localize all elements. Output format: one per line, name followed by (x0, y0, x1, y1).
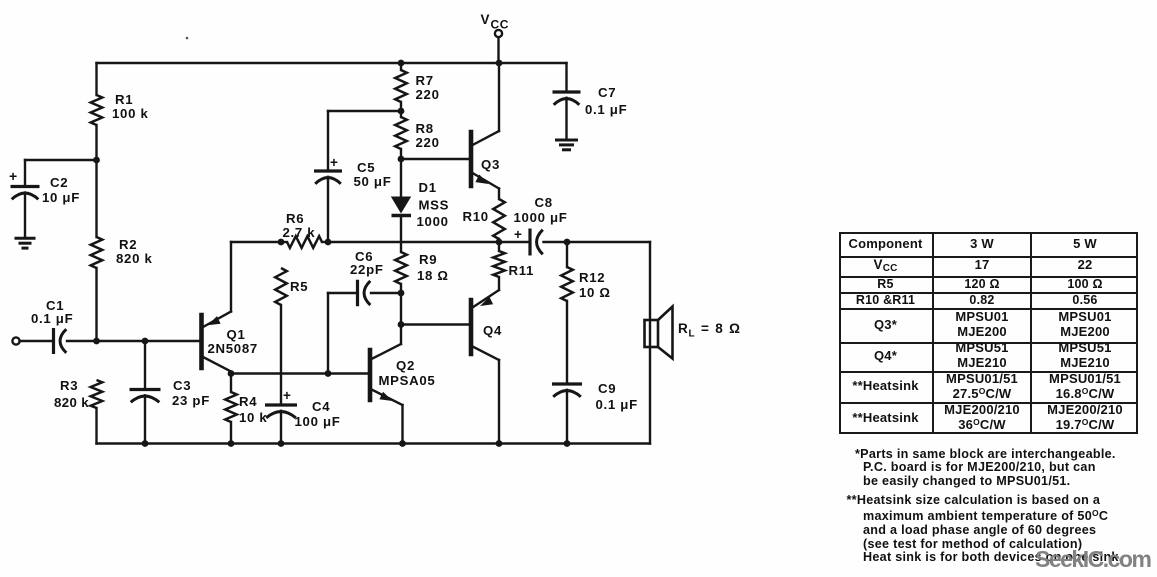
svg-text:D1: D1 (419, 180, 437, 195)
node C2 junction (93, 157, 100, 164)
svg-text:10 k: 10 k (239, 410, 267, 425)
svg-text:R10: R10 (463, 209, 489, 224)
svg-text:MSS: MSS (419, 198, 450, 213)
resistor R2 (91, 237, 103, 268)
resistor R12 (566, 242, 568, 267)
wire C7 to ground (565, 98, 567, 140)
svg-text:18 Ω: 18 Ω (417, 268, 449, 283)
wire Q1 emitter to feedback node (230, 242, 232, 312)
svg-text:R9: R9 (419, 252, 437, 267)
component table (839, 232, 1138, 434)
wire D1 cathode to R9 (400, 216, 402, 253)
svg-text:C3: C3 (173, 378, 191, 393)
wire R5 to C4 (280, 305, 282, 405)
wire R12 to C9 (566, 301, 568, 384)
speck artifact (186, 37, 189, 40)
wire Q1 collector to Q2 base (231, 372, 370, 374)
node C6 stub junction (325, 370, 332, 377)
wire R9 to VAS node (400, 284, 402, 293)
wire Q3 base (401, 158, 471, 160)
Q3 emitter lead (473, 173, 500, 189)
wire R2 to input node (95, 268, 97, 341)
diode D1 (391, 197, 411, 214)
speaker RL (645, 320, 659, 347)
wire feedback to output node (328, 241, 499, 243)
wire C2 to ground (24, 193, 26, 239)
svg-text:22pF: 22pF (350, 262, 384, 277)
wire rail corner to C7 (565, 63, 567, 92)
node C3 bottom junction (142, 440, 149, 447)
wire VAS node column (400, 293, 402, 344)
svg-text:C4: C4 (312, 399, 330, 414)
wire R11 to Q4 emitter (498, 277, 500, 290)
svg-text:2.7 k: 2.7 k (283, 225, 316, 240)
svg-text:2N5087: 2N5087 (208, 341, 258, 356)
svg-text:220: 220 (416, 135, 440, 150)
node Q4 collector junction (496, 440, 503, 447)
capacitor C2 (11, 185, 40, 188)
resistor R3 (91, 380, 103, 408)
resistor R4 (230, 374, 232, 393)
svg-text:Q1: Q1 (227, 327, 246, 342)
svg-text:R2: R2 (119, 237, 137, 252)
wire C5 to feedback node (327, 177, 329, 242)
resistor R10 (493, 199, 505, 239)
svg-text:= 8 Ω: = 8 Ω (701, 321, 741, 336)
resistor R1 (91, 95, 103, 125)
wire C6 right (371, 292, 401, 294)
table row R5 (839, 276, 932, 291)
capacitor C9 (552, 382, 582, 385)
svg-text:R8: R8 (416, 121, 434, 136)
svg-text:1000: 1000 (417, 214, 449, 229)
wire C1 to Q1 base (67, 340, 202, 342)
svg-text:10 μF: 10 μF (42, 190, 80, 205)
svg-text:23 pF: 23 pF (172, 393, 210, 408)
svg-text:220: 220 (416, 87, 440, 102)
Q1 emitter arrow (208, 316, 221, 325)
wire R7 to R8 (400, 102, 402, 117)
node R4 bottom junction (228, 440, 235, 447)
wire Q2 emitter to bottom rail (401, 405, 403, 444)
node C3 top junction (142, 338, 149, 345)
svg-text:R1: R1 (115, 92, 133, 107)
svg-text:R5: R5 (290, 279, 308, 294)
wire feedback corner (231, 241, 281, 243)
Q2 emitter lead (372, 390, 403, 406)
wire rail to R7 (400, 63, 402, 70)
wire R10 to output node (498, 239, 500, 242)
wire Q4 collector to bottom rail (498, 360, 500, 444)
wire Q4 base (401, 323, 471, 325)
svg-text:R6: R6 (286, 211, 304, 226)
Vcc terminal (495, 30, 502, 37)
node Q3 base junction (398, 156, 405, 163)
table row Q4 (839, 342, 932, 370)
Q2 emitter arrow (379, 392, 392, 401)
wire output to speaker corner (567, 241, 650, 243)
svg-text:R7: R7 (416, 73, 434, 88)
resistor R11 (493, 251, 505, 277)
svg-text:+: + (514, 227, 523, 242)
capacitor C3 (130, 388, 161, 391)
ground below C7 (555, 139, 578, 142)
svg-text:0.1 μF: 0.1 μF (596, 397, 638, 412)
svg-text:820 k: 820 k (54, 395, 89, 410)
svg-text:R3: R3 (60, 378, 78, 393)
svg-text:MPSA05: MPSA05 (379, 373, 436, 388)
table row Vcc (839, 256, 932, 275)
svg-text:R12: R12 (579, 270, 605, 285)
node C5 wire junction (398, 108, 405, 115)
svg-text:100 k: 100 k (112, 106, 149, 121)
wire C9 to bottom rail (566, 390, 568, 444)
note parts interchangeable (855, 448, 1150, 489)
wire R3 to bottom rail (95, 408, 97, 444)
capacitor C5 (314, 169, 342, 172)
node R7 top junction (398, 60, 405, 67)
resistor R8 (395, 117, 407, 149)
svg-text:R: R (678, 321, 688, 336)
svg-text:10 Ω: 10 Ω (579, 285, 611, 300)
wire R1 to C2 node (95, 125, 97, 237)
wire C5 top branch (328, 110, 401, 112)
wire C6 left stub (328, 292, 358, 294)
Q3 collector lead (473, 131, 500, 145)
resistor R6 (281, 241, 287, 243)
wire top supply rail (97, 62, 567, 64)
svg-text:Q4: Q4 (483, 323, 502, 338)
watermark SeekIC.com (1035, 546, 1150, 573)
wire C3 to bottom rail (144, 395, 146, 443)
wire R8 to Q3 base node (400, 149, 402, 196)
node Vcc junction (496, 60, 503, 67)
input terminal (12, 337, 19, 344)
svg-text:50 μF: 50 μF (354, 174, 392, 189)
node R12 junction (564, 239, 571, 246)
transistor Q1 bar (199, 315, 204, 368)
wire C4 to bottom rail (280, 411, 282, 444)
table row line 6 (839, 371, 1138, 373)
table row line 2 (839, 276, 1138, 278)
table column line 1 (932, 232, 934, 434)
wire output node to C8 (499, 241, 530, 243)
svg-text:+: + (283, 388, 292, 403)
table row line 1 (839, 256, 1138, 258)
note heatsink calculation (847, 494, 1157, 566)
Q1 collector lead (203, 357, 231, 372)
table row line 3 (839, 292, 1138, 294)
svg-text:C2: C2 (50, 175, 68, 190)
node C6 right junction (398, 290, 405, 297)
svg-text:1000 μF: 1000 μF (514, 210, 568, 225)
svg-text:Q3: Q3 (481, 157, 500, 172)
table row line 7 (839, 402, 1138, 404)
capacitor C4 (265, 403, 297, 406)
Q4 collector lead (473, 347, 500, 361)
capacitor C8 (528, 229, 531, 256)
capacitor C7 (553, 90, 581, 93)
svg-text:100 μF: 100 μF (295, 414, 341, 429)
wire output node to R11 (498, 242, 500, 251)
svg-text:R4: R4 (239, 394, 257, 409)
svg-text:820 k: 820 k (116, 251, 153, 266)
svg-text:V: V (481, 12, 490, 27)
resistor R7 (395, 70, 407, 102)
svg-text:C9: C9 (598, 381, 616, 396)
table row Q3 (839, 309, 932, 341)
wire input to C1 (20, 340, 54, 342)
svg-text:R11: R11 (509, 263, 535, 278)
node Q1 collector junction (228, 370, 235, 377)
wire bottom ground rail (97, 442, 651, 444)
table column line 2 (1030, 232, 1032, 434)
svg-text:+: + (330, 155, 339, 170)
node input junction (93, 338, 100, 345)
table header row (839, 233, 932, 255)
wire Q3 collector to rail (498, 63, 500, 131)
node C4 bottom junction (278, 440, 285, 447)
Q3 emitter arrow (475, 175, 488, 185)
Q1 emitter lead (203, 312, 231, 328)
table row line 4 (839, 308, 1138, 310)
Q2 collector lead (372, 344, 402, 359)
node C5 bottom junction (325, 239, 332, 246)
Q4 emitter lead (473, 290, 500, 308)
table row R10R11 (839, 292, 932, 307)
wire C3 branch top (144, 341, 146, 390)
svg-text:0.1 μF: 0.1 μF (585, 102, 627, 117)
svg-text:Q2: Q2 (396, 358, 415, 373)
node C9 bottom junction (564, 440, 571, 447)
node Q2 emitter junction (399, 440, 406, 447)
wire left bias column top (95, 63, 97, 95)
transistor Q4 bar (469, 300, 474, 354)
svg-text:L: L (689, 329, 695, 340)
table row line 5 (839, 342, 1138, 344)
wire C8 to R12 node (544, 241, 568, 243)
table row heatsink1 (839, 372, 932, 401)
node R5 R6 junction (278, 239, 285, 246)
table row heatsink2 (839, 403, 932, 433)
capacitor C1 (52, 328, 55, 354)
node Q4 base junction (398, 321, 405, 328)
node output junction (496, 239, 503, 246)
svg-text:C7: C7 (598, 85, 616, 100)
svg-text:+: + (9, 168, 18, 184)
transistor Q3 bar (469, 132, 474, 186)
svg-text:C5: C5 (357, 160, 375, 175)
resistor R5 (275, 268, 287, 305)
wire C2 branch (25, 159, 97, 161)
svg-text:CC: CC (491, 18, 510, 32)
wire Q3 emitter to R10 (498, 189, 500, 200)
capacitor C6 (356, 280, 359, 307)
transistor Q2 bar (368, 350, 373, 400)
resistor R9 (395, 252, 407, 284)
ground below C2 (15, 237, 36, 240)
Q4 emitter arrow (480, 297, 493, 306)
svg-text:0.1 μF: 0.1 μF (31, 311, 73, 326)
wire speaker to bottom rail (649, 347, 651, 444)
svg-text:C8: C8 (535, 195, 553, 210)
wire Vcc to rail (497, 37, 499, 63)
